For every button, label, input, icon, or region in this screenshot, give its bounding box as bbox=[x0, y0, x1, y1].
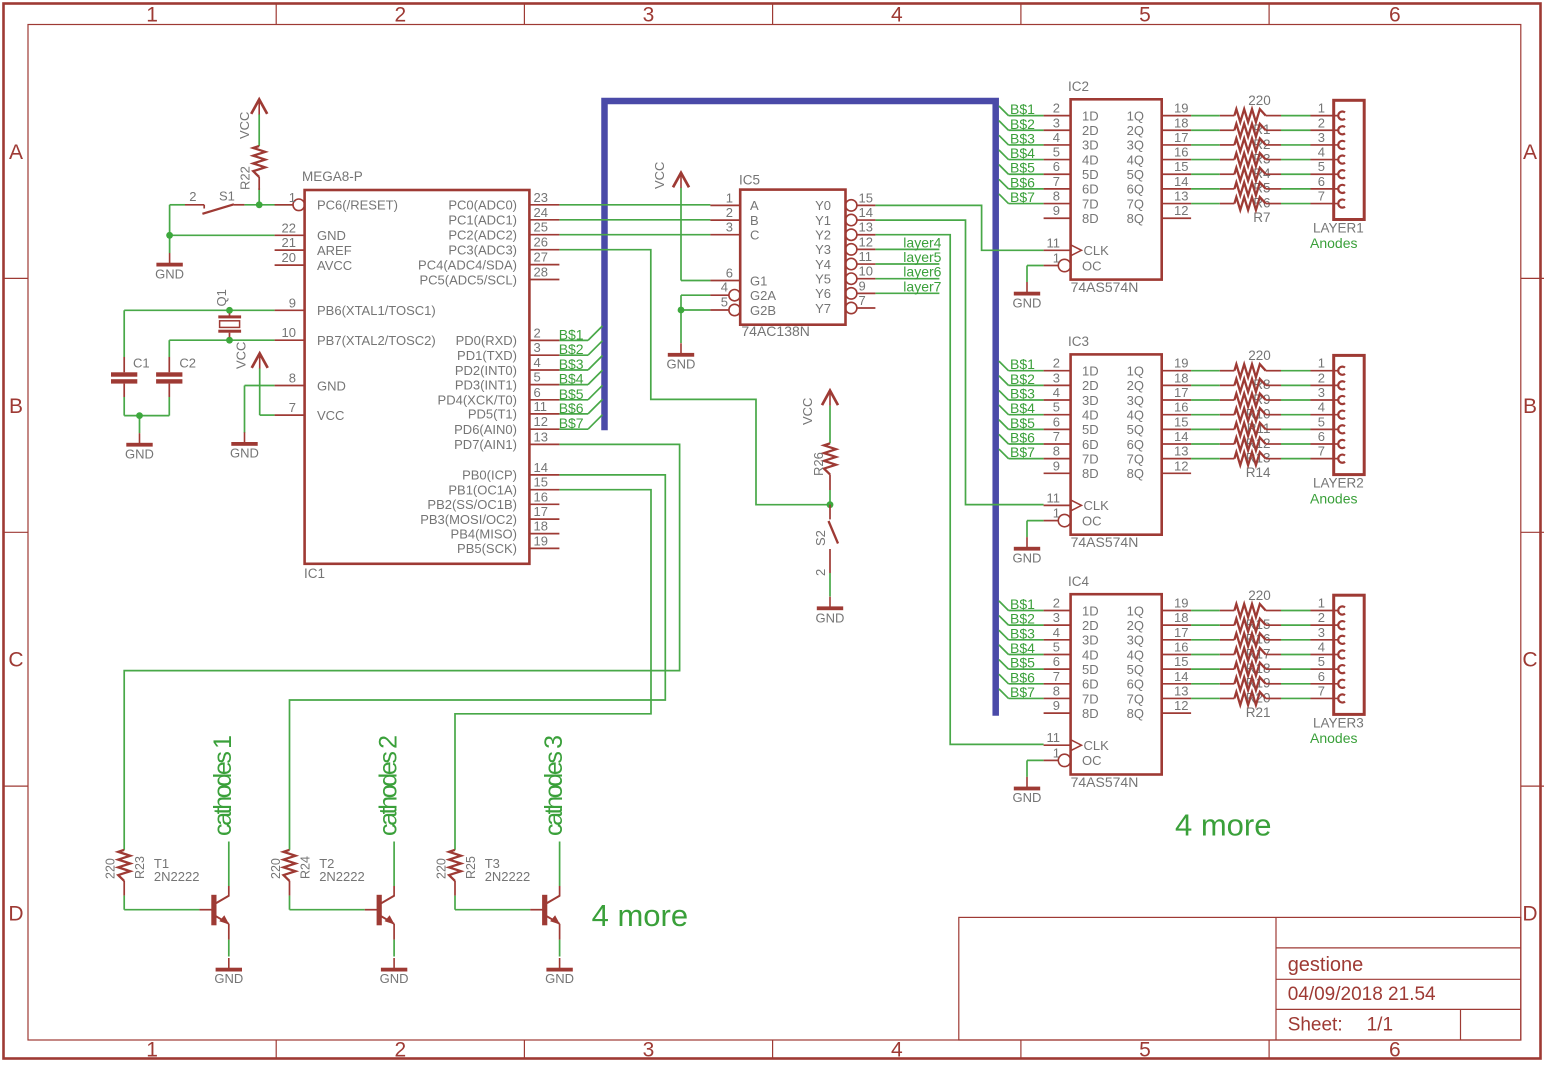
wire IC4 7Q to resistor bbox=[1191, 697, 1310, 699]
svg-text:PD1(TXD): PD1(TXD) bbox=[457, 348, 517, 363]
svg-text:layer4: layer4 bbox=[903, 234, 941, 250]
wire PC3 to R26/S2 node bbox=[559, 250, 830, 505]
svg-text:1Q: 1Q bbox=[1127, 603, 1144, 618]
svg-text:Y5: Y5 bbox=[815, 272, 831, 287]
supply VCC at IC5 G1 bbox=[652, 162, 689, 189]
svg-text:B$4: B$4 bbox=[1010, 400, 1035, 416]
svg-text:GND: GND bbox=[667, 357, 696, 372]
svg-text:B$4: B$4 bbox=[559, 371, 584, 387]
svg-text:GND: GND bbox=[125, 446, 154, 461]
net label cathodes 1 bbox=[209, 735, 237, 836]
svg-text:VCC: VCC bbox=[237, 112, 252, 139]
svg-text:15: 15 bbox=[1174, 654, 1188, 669]
wire IC2 1Q to resistor bbox=[1191, 115, 1310, 117]
ground below C1 C2 bbox=[125, 433, 154, 461]
svg-text:3: 3 bbox=[643, 4, 655, 27]
svg-text:2: 2 bbox=[534, 325, 541, 340]
wire IC2 5Q to resistor bbox=[1191, 173, 1310, 175]
svg-text:9: 9 bbox=[859, 278, 866, 293]
wire IC3 3Q to resistor bbox=[1191, 399, 1310, 401]
svg-text:2Q: 2Q bbox=[1127, 378, 1144, 393]
wire and net label B$4 at IC4 bbox=[999, 640, 1044, 656]
wire IC4 6Q to resistor bbox=[1191, 683, 1310, 685]
svg-text:2: 2 bbox=[1053, 101, 1060, 116]
svg-text:20: 20 bbox=[282, 250, 296, 265]
svg-text:14: 14 bbox=[1174, 174, 1188, 189]
svg-text:18: 18 bbox=[1174, 370, 1188, 385]
svg-text:B$1: B$1 bbox=[1010, 596, 1035, 612]
svg-text:9: 9 bbox=[1053, 203, 1060, 218]
wire T3 collector to net cathodes 3 bbox=[559, 842, 561, 887]
svg-text:4: 4 bbox=[534, 355, 541, 370]
svg-text:12: 12 bbox=[1174, 458, 1188, 473]
wire R23 to T1 base bbox=[124, 896, 199, 910]
svg-text:B$3: B$3 bbox=[1010, 386, 1035, 402]
svg-text:5: 5 bbox=[721, 295, 728, 310]
svg-text:B$3: B$3 bbox=[559, 356, 584, 372]
wire Y2 to IC4 CLK bbox=[875, 235, 1043, 745]
svg-text:7Q: 7Q bbox=[1127, 451, 1144, 466]
transistor T2 2N2222 bbox=[319, 856, 394, 940]
svg-text:1: 1 bbox=[1053, 745, 1060, 760]
svg-text:3D: 3D bbox=[1082, 633, 1099, 648]
svg-text:2: 2 bbox=[1053, 356, 1060, 371]
svg-text:layer6: layer6 bbox=[903, 264, 941, 280]
wire and net label B$4 at IC3 bbox=[999, 400, 1044, 416]
svg-text:5: 5 bbox=[534, 370, 541, 385]
ground below IC4 OC bbox=[1013, 777, 1042, 805]
svg-text:17: 17 bbox=[1174, 385, 1188, 400]
resistor R24 bbox=[269, 850, 313, 896]
wire and net label B$5 at IC2 bbox=[999, 160, 1044, 176]
resistor network R7 (220 ohm, R labels) bbox=[1220, 93, 1281, 225]
svg-text:6Q: 6Q bbox=[1127, 677, 1144, 692]
svg-text:2Q: 2Q bbox=[1127, 618, 1144, 633]
svg-text:4D: 4D bbox=[1082, 647, 1099, 662]
svg-text:1: 1 bbox=[1053, 506, 1060, 521]
wire IC3 OC to GND bbox=[1027, 521, 1044, 538]
svg-text:PD5(T1): PD5(T1) bbox=[468, 407, 517, 422]
wire R26 to S2 junction bbox=[829, 490, 831, 505]
svg-text:25: 25 bbox=[534, 220, 548, 235]
svg-text:8: 8 bbox=[1053, 444, 1060, 459]
svg-text:1D: 1D bbox=[1082, 364, 1099, 379]
svg-text:5: 5 bbox=[1318, 654, 1325, 669]
svg-text:3D: 3D bbox=[1082, 393, 1099, 408]
svg-text:Y6: Y6 bbox=[815, 286, 831, 301]
svg-text:G1: G1 bbox=[750, 273, 767, 288]
svg-text:GND: GND bbox=[317, 378, 346, 393]
svg-text:PB0(ICP): PB0(ICP) bbox=[462, 468, 517, 483]
ground below IC3 OC bbox=[1013, 537, 1042, 565]
svg-text:2N2222: 2N2222 bbox=[319, 869, 365, 884]
annotation 4 more (right) bbox=[1175, 808, 1271, 843]
svg-text:16: 16 bbox=[1174, 145, 1188, 160]
svg-text:1D: 1D bbox=[1082, 603, 1099, 618]
svg-text:AREF: AREF bbox=[317, 243, 352, 258]
svg-text:layer7: layer7 bbox=[903, 278, 941, 294]
svg-text:11: 11 bbox=[859, 249, 873, 264]
svg-text:2: 2 bbox=[189, 189, 196, 204]
wire PB6 net: MCU pin9 to Q1 and C1 bbox=[124, 310, 274, 357]
svg-text:3: 3 bbox=[534, 340, 541, 355]
svg-text:3D: 3D bbox=[1082, 138, 1099, 153]
svg-text:3: 3 bbox=[643, 1039, 655, 1062]
svg-text:10: 10 bbox=[282, 325, 296, 340]
svg-text:3Q: 3Q bbox=[1127, 393, 1144, 408]
svg-text:B$7: B$7 bbox=[1010, 444, 1035, 460]
svg-text:18: 18 bbox=[534, 519, 548, 534]
ground at MCU pin8 bbox=[230, 432, 259, 460]
svg-text:6: 6 bbox=[1053, 159, 1060, 174]
svg-text:4: 4 bbox=[891, 1039, 903, 1062]
svg-text:4: 4 bbox=[1318, 400, 1325, 415]
resistor R22 bbox=[238, 146, 266, 190]
svg-text:17: 17 bbox=[1174, 130, 1188, 145]
node G2A/G2B junction bbox=[678, 307, 685, 314]
wire and net label B$6 at IC4 bbox=[999, 669, 1044, 685]
wire and net label B$7 at IC2 bbox=[999, 189, 1044, 205]
wire T3 emitter to GND bbox=[559, 940, 561, 957]
svg-text:19: 19 bbox=[1174, 596, 1188, 611]
svg-text:LAYER3: LAYER3 bbox=[1313, 715, 1364, 730]
latch IC3 74AS574N bbox=[1044, 334, 1192, 550]
net label Anodes at LAYER2 bbox=[1310, 490, 1357, 506]
svg-text:GND: GND bbox=[214, 971, 243, 986]
svg-text:IC2: IC2 bbox=[1068, 79, 1089, 94]
svg-text:7: 7 bbox=[289, 400, 296, 415]
wire T1 emitter to GND bbox=[228, 940, 230, 957]
wire S2 to GND bbox=[829, 573, 831, 597]
svg-text:D: D bbox=[8, 903, 23, 926]
switch S2 bbox=[813, 505, 838, 576]
bus B (thick blue) bbox=[605, 101, 996, 716]
wire IC3 2Q to resistor bbox=[1191, 384, 1310, 386]
svg-text:Anodes: Anodes bbox=[1310, 235, 1357, 251]
wire and net label B$5 at IC3 bbox=[999, 415, 1044, 431]
svg-text:220: 220 bbox=[269, 858, 283, 879]
wire and net label B$3 at MCU bbox=[559, 356, 603, 373]
svg-text:6: 6 bbox=[1389, 4, 1401, 27]
svg-text:Y0: Y0 bbox=[815, 198, 831, 213]
svg-text:5: 5 bbox=[1053, 145, 1060, 160]
svg-text:B$5: B$5 bbox=[1010, 415, 1035, 431]
svg-text:4: 4 bbox=[1053, 625, 1060, 640]
svg-text:PD0(RXD): PD0(RXD) bbox=[456, 333, 517, 348]
svg-text:8D: 8D bbox=[1082, 706, 1099, 721]
wire and net label B$1 at IC3 bbox=[999, 356, 1044, 372]
svg-text:PB1(OC1A): PB1(OC1A) bbox=[448, 483, 517, 498]
wire IC3 6Q to resistor bbox=[1191, 443, 1310, 445]
resistor R23 bbox=[104, 850, 148, 896]
wire IC2 OC to GND bbox=[1027, 266, 1044, 283]
svg-text:CLK: CLK bbox=[1084, 738, 1110, 753]
svg-text:9: 9 bbox=[1053, 698, 1060, 713]
wire and net label B$6 at IC3 bbox=[999, 430, 1044, 446]
svg-text:PD2(INT0): PD2(INT0) bbox=[455, 363, 517, 378]
node R22/S1/pin1 junction bbox=[256, 201, 263, 208]
svg-text:3: 3 bbox=[1053, 115, 1060, 130]
resistor R26 bbox=[811, 443, 836, 490]
wire VCC to R22 top bbox=[258, 114, 260, 146]
svg-text:6: 6 bbox=[1318, 669, 1325, 684]
svg-text:D: D bbox=[1522, 903, 1537, 926]
svg-text:R14: R14 bbox=[1246, 465, 1271, 480]
svg-text:5D: 5D bbox=[1082, 422, 1099, 437]
svg-text:13: 13 bbox=[1174, 683, 1188, 698]
svg-text:3: 3 bbox=[1053, 370, 1060, 385]
net label Anodes at LAYER1 bbox=[1310, 235, 1357, 251]
connector LAYER1 bbox=[1311, 100, 1365, 235]
wire IC2 7Q to resistor bbox=[1191, 203, 1310, 205]
svg-text:GND: GND bbox=[1013, 550, 1042, 565]
wire PC1 to IC5 B bbox=[559, 219, 710, 221]
wire IC5 G2A/G2B to GND bbox=[681, 295, 710, 343]
svg-text:PB5(SCK): PB5(SCK) bbox=[457, 541, 517, 556]
svg-text:12: 12 bbox=[534, 414, 548, 429]
wire PB7 net: MCU pin10 to Q1 and C2 bbox=[169, 340, 274, 357]
svg-text:15: 15 bbox=[859, 190, 873, 205]
svg-text:13: 13 bbox=[1174, 444, 1188, 459]
wire T2 collector to net cathodes 2 bbox=[393, 842, 395, 887]
svg-text:Q1: Q1 bbox=[214, 289, 229, 306]
svg-text:11: 11 bbox=[1047, 730, 1061, 745]
svg-text:9: 9 bbox=[289, 295, 296, 310]
svg-text:5Q: 5Q bbox=[1127, 662, 1144, 677]
svg-text:GND: GND bbox=[155, 266, 184, 281]
svg-text:PB7(XTAL2/TOSC2): PB7(XTAL2/TOSC2) bbox=[317, 333, 436, 348]
svg-text:1: 1 bbox=[1318, 356, 1325, 371]
wire IC3 5Q to resistor bbox=[1191, 428, 1310, 430]
svg-text:B$2: B$2 bbox=[1010, 116, 1035, 132]
svg-text:GND: GND bbox=[230, 446, 259, 461]
svg-text:7: 7 bbox=[1318, 444, 1325, 459]
svg-text:B$4: B$4 bbox=[1010, 145, 1035, 161]
svg-text:7D: 7D bbox=[1082, 691, 1099, 706]
wire VCC to IC5 G1 bbox=[681, 188, 710, 281]
svg-text:B$6: B$6 bbox=[1010, 174, 1035, 190]
svg-text:VCC: VCC bbox=[800, 398, 815, 425]
wire net layer4 bbox=[875, 248, 939, 250]
svg-text:Y1: Y1 bbox=[815, 213, 831, 228]
svg-text:2: 2 bbox=[1318, 115, 1325, 130]
transistor T1 2N2222 bbox=[154, 856, 229, 940]
svg-text:5D: 5D bbox=[1082, 662, 1099, 677]
wire and net label B$7 at IC3 bbox=[999, 444, 1044, 460]
svg-text:2: 2 bbox=[1318, 610, 1325, 625]
svg-text:6: 6 bbox=[1053, 654, 1060, 669]
svg-text:GND: GND bbox=[545, 971, 574, 986]
svg-text:4 more: 4 more bbox=[592, 898, 688, 933]
svg-text:8: 8 bbox=[289, 371, 296, 386]
svg-text:B$3: B$3 bbox=[1010, 625, 1035, 641]
svg-text:layer5: layer5 bbox=[903, 249, 941, 265]
svg-text:1: 1 bbox=[1318, 596, 1325, 611]
wire MCU pin8 to GND bbox=[245, 386, 275, 433]
svg-text:4: 4 bbox=[1053, 130, 1060, 145]
svg-text:5: 5 bbox=[1053, 639, 1060, 654]
svg-text:4Q: 4Q bbox=[1127, 152, 1144, 167]
svg-text:7: 7 bbox=[1318, 189, 1325, 204]
svg-text:IC1: IC1 bbox=[304, 566, 325, 581]
svg-text:MEGA8-P: MEGA8-P bbox=[302, 169, 363, 184]
svg-text:6: 6 bbox=[534, 385, 541, 400]
wire and net label B$6 at MCU bbox=[559, 399, 603, 416]
svg-text:6D: 6D bbox=[1082, 182, 1099, 197]
svg-text:3Q: 3Q bbox=[1127, 138, 1144, 153]
svg-text:220: 220 bbox=[1248, 588, 1271, 603]
svg-text:12: 12 bbox=[1174, 698, 1188, 713]
svg-text:PC0(ADC0): PC0(ADC0) bbox=[448, 198, 517, 213]
net label layer7 bbox=[903, 278, 941, 294]
svg-text:7D: 7D bbox=[1082, 451, 1099, 466]
svg-text:1: 1 bbox=[146, 4, 158, 27]
svg-text:5D: 5D bbox=[1082, 167, 1099, 182]
svg-text:3: 3 bbox=[1318, 130, 1325, 145]
wire C1/C2 bottoms to GND bbox=[124, 397, 169, 433]
svg-text:VCC: VCC bbox=[317, 408, 344, 423]
svg-text:A: A bbox=[750, 198, 759, 213]
svg-text:PD7(AIN1): PD7(AIN1) bbox=[454, 437, 517, 452]
svg-text:22: 22 bbox=[282, 220, 296, 235]
wire IC4 3Q to resistor bbox=[1191, 639, 1310, 641]
svg-text:4D: 4D bbox=[1082, 407, 1099, 422]
svg-text:PC4(ADC4/SDA): PC4(ADC4/SDA) bbox=[418, 257, 517, 272]
svg-text:8Q: 8Q bbox=[1127, 211, 1144, 226]
svg-text:23: 23 bbox=[534, 190, 548, 205]
svg-text:4: 4 bbox=[1318, 639, 1325, 654]
svg-text:2Q: 2Q bbox=[1127, 123, 1144, 138]
svg-text:2D: 2D bbox=[1082, 378, 1099, 393]
supply VCC at MCU pin7 bbox=[234, 342, 268, 369]
wire and net label B$1 at MCU bbox=[559, 326, 603, 343]
wire and net label B$3 at IC4 bbox=[999, 625, 1044, 641]
svg-text:220: 220 bbox=[104, 858, 118, 879]
svg-text:13: 13 bbox=[1174, 189, 1188, 204]
latch IC4 74AS574N bbox=[1044, 574, 1192, 790]
wire R24 to T2 base bbox=[290, 896, 365, 910]
svg-text:OC: OC bbox=[1082, 753, 1102, 768]
svg-text:2: 2 bbox=[726, 205, 733, 220]
svg-text:LAYER2: LAYER2 bbox=[1313, 476, 1364, 491]
wire VCC to R26 bbox=[829, 406, 831, 444]
svg-text:3: 3 bbox=[726, 220, 733, 235]
svg-text:2D: 2D bbox=[1082, 123, 1099, 138]
svg-text:7: 7 bbox=[1053, 429, 1060, 444]
svg-text:15: 15 bbox=[1174, 414, 1188, 429]
wire and net label B$2 at IC4 bbox=[999, 611, 1044, 627]
node R26/S2 junction bbox=[827, 501, 834, 508]
svg-text:220: 220 bbox=[1248, 93, 1271, 108]
wire Y0 to IC2 CLK bbox=[875, 205, 1043, 250]
svg-text:13: 13 bbox=[534, 429, 548, 444]
svg-text:Y4: Y4 bbox=[815, 257, 831, 272]
ground below S1 bbox=[155, 253, 184, 281]
svg-text:14: 14 bbox=[1174, 669, 1188, 684]
svg-text:B$1: B$1 bbox=[1010, 356, 1035, 372]
svg-text:12: 12 bbox=[859, 234, 873, 249]
svg-text:7: 7 bbox=[1318, 683, 1325, 698]
net label layer4 bbox=[903, 234, 941, 250]
svg-text:cathodes 2: cathodes 2 bbox=[374, 735, 402, 836]
switch S1 bbox=[185, 189, 244, 214]
svg-text:C1: C1 bbox=[133, 356, 150, 371]
ground below S2 bbox=[816, 597, 845, 626]
svg-text:GND: GND bbox=[317, 228, 346, 243]
svg-text:OC: OC bbox=[1082, 258, 1102, 273]
svg-text:2: 2 bbox=[1053, 596, 1060, 611]
svg-text:B: B bbox=[750, 213, 759, 228]
svg-text:VCC: VCC bbox=[234, 342, 249, 369]
svg-text:3: 3 bbox=[1318, 625, 1325, 640]
svg-text:04/09/2018 21.54: 04/09/2018 21.54 bbox=[1288, 984, 1436, 1005]
wire and net label B$4 at IC2 bbox=[999, 145, 1044, 161]
svg-text:1: 1 bbox=[1053, 251, 1060, 266]
svg-text:8Q: 8Q bbox=[1127, 466, 1144, 481]
svg-text:7: 7 bbox=[1053, 174, 1060, 189]
svg-text:19: 19 bbox=[1174, 356, 1188, 371]
svg-text:B$1: B$1 bbox=[559, 326, 584, 342]
svg-text:2N2222: 2N2222 bbox=[154, 869, 200, 884]
svg-text:GND: GND bbox=[380, 971, 409, 986]
wire IC2 3Q to resistor bbox=[1191, 144, 1310, 146]
svg-text:Y3: Y3 bbox=[815, 242, 831, 257]
svg-text:cathodes 3: cathodes 3 bbox=[540, 735, 568, 836]
svg-text:13: 13 bbox=[859, 220, 873, 235]
svg-text:OC: OC bbox=[1082, 513, 1102, 528]
wire and net label B$3 at IC2 bbox=[999, 130, 1044, 146]
wire net layer5 bbox=[875, 263, 939, 265]
title block bbox=[959, 917, 1521, 1040]
svg-text:R24: R24 bbox=[299, 856, 313, 879]
wire PC0 to IC5 A bbox=[559, 204, 710, 206]
svg-text:R21: R21 bbox=[1246, 705, 1271, 720]
svg-text:16: 16 bbox=[534, 489, 548, 504]
svg-text:5: 5 bbox=[1139, 4, 1151, 27]
decoder IC5 74AC138N bbox=[710, 173, 875, 339]
svg-text:24: 24 bbox=[534, 205, 548, 220]
svg-text:220: 220 bbox=[1248, 348, 1271, 363]
svg-text:C: C bbox=[8, 649, 23, 672]
svg-text:21: 21 bbox=[282, 235, 296, 250]
net label Anodes at LAYER3 bbox=[1310, 730, 1357, 746]
svg-text:5: 5 bbox=[1318, 159, 1325, 174]
svg-text:B$6: B$6 bbox=[1010, 669, 1035, 685]
svg-text:PC5(ADC5/SCL): PC5(ADC5/SCL) bbox=[419, 272, 517, 287]
node GND/pin22 junction bbox=[166, 232, 173, 239]
svg-text:CLK: CLK bbox=[1084, 243, 1110, 258]
svg-text:R23: R23 bbox=[133, 856, 147, 879]
svg-text:PD3(INT1): PD3(INT1) bbox=[455, 377, 517, 392]
svg-text:1/1: 1/1 bbox=[1367, 1015, 1393, 1036]
svg-text:6D: 6D bbox=[1082, 437, 1099, 452]
svg-text:PC6(/RESET): PC6(/RESET) bbox=[317, 198, 398, 213]
ground below T3 bbox=[545, 958, 574, 986]
wire and net label B$5 at IC4 bbox=[999, 655, 1044, 671]
svg-text:1Q: 1Q bbox=[1127, 364, 1144, 379]
svg-text:IC4: IC4 bbox=[1068, 574, 1090, 589]
svg-text:G2B: G2B bbox=[750, 303, 776, 318]
svg-text:3: 3 bbox=[1053, 610, 1060, 625]
svg-text:Sheet:: Sheet: bbox=[1288, 1015, 1343, 1036]
net label layer5 bbox=[903, 249, 941, 265]
svg-text:GND: GND bbox=[816, 610, 845, 625]
svg-text:B$5: B$5 bbox=[1010, 655, 1035, 671]
wire and net label B$6 at IC2 bbox=[999, 174, 1044, 190]
svg-text:AVCC: AVCC bbox=[317, 258, 352, 273]
wire PB1 (pin15) to R25 bbox=[455, 490, 651, 850]
svg-text:B$1: B$1 bbox=[1010, 101, 1035, 117]
